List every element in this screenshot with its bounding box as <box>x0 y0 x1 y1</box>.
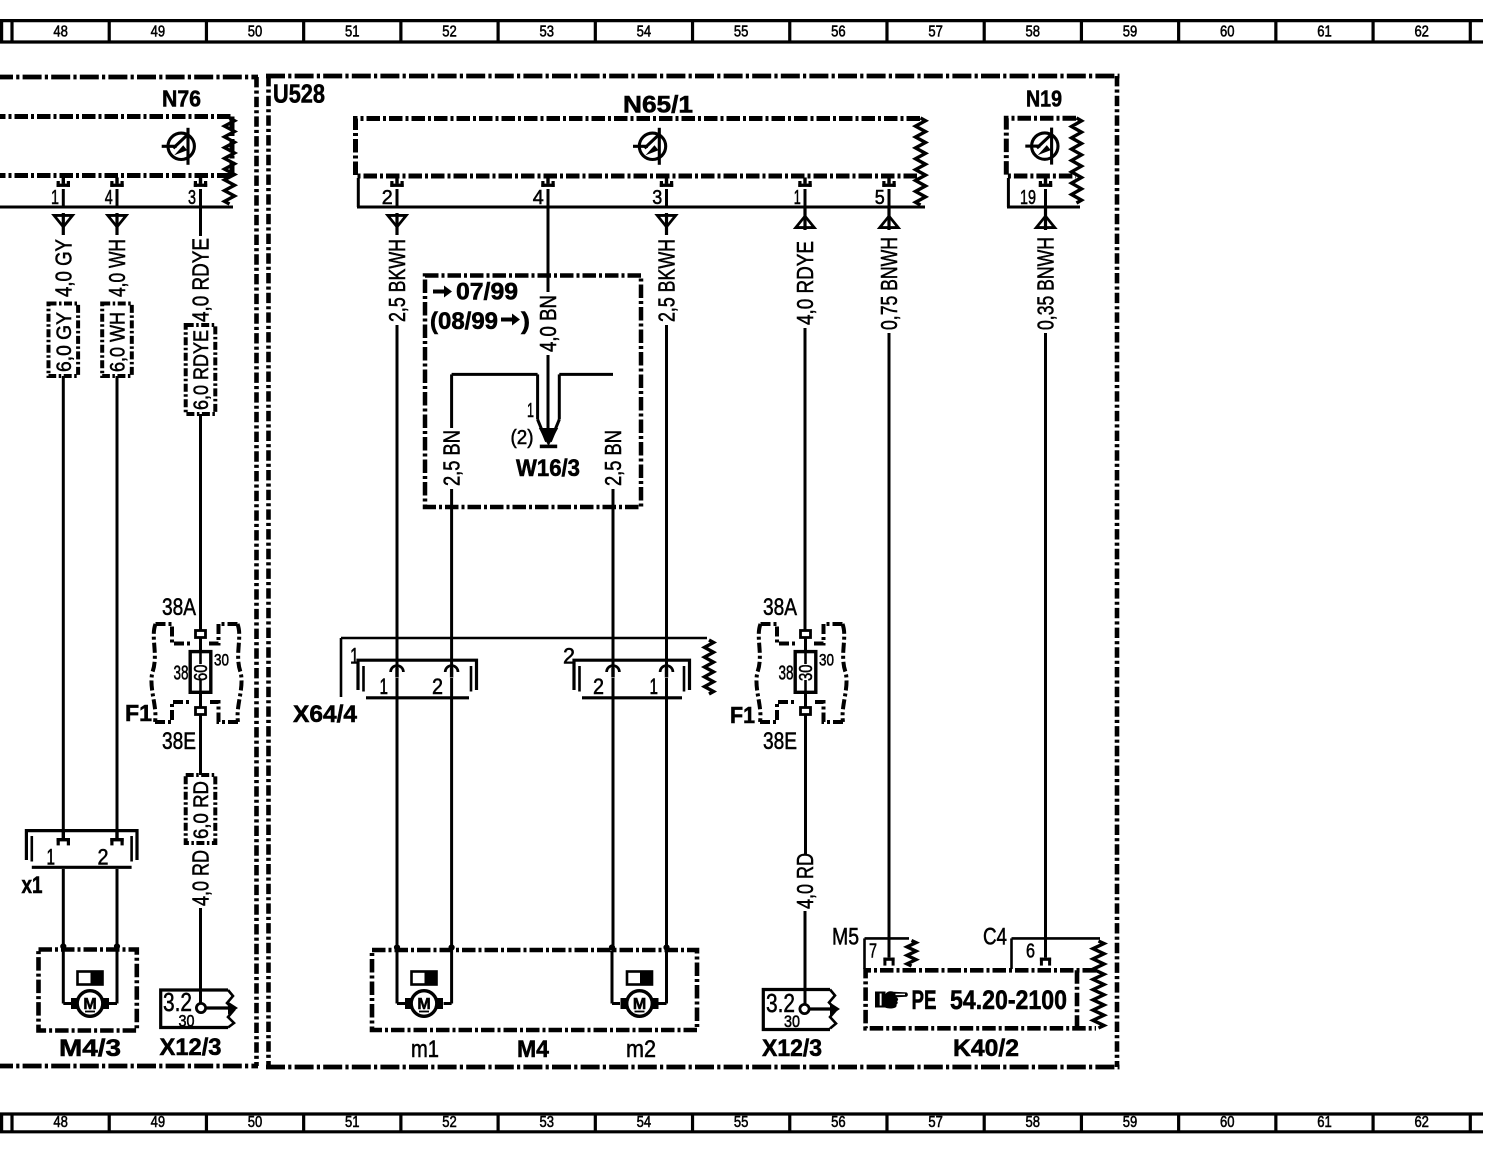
svg-text:4: 4 <box>533 186 544 209</box>
svg-text:0,35 BNWH: 0,35 BNWH <box>1033 237 1059 330</box>
validity arrow 07/99 <box>433 286 452 298</box>
m1 regulator icon <box>412 972 437 985</box>
fuse/relay box K40/2 <box>866 970 1096 1028</box>
wire WH down to x1 <box>116 376 119 831</box>
svg-text:49: 49 <box>151 1114 166 1131</box>
X12/3 socket circle and arrow <box>196 1003 205 1012</box>
terminal block X12/3 right <box>763 990 836 1030</box>
wire spec box 6,0 RDYE <box>186 325 216 414</box>
junction dot <box>114 943 120 949</box>
svg-text:62: 62 <box>1414 1114 1429 1131</box>
svg-text:2: 2 <box>593 674 604 699</box>
W16/3 branch wiring <box>452 373 538 376</box>
wires x1 to M4/3 <box>62 869 65 951</box>
svg-text:38E: 38E <box>763 728 797 755</box>
svg-text:2,5 BKWH: 2,5 BKWH <box>654 239 680 322</box>
junction dot <box>60 943 66 949</box>
grid ruler line <box>0 19 1483 22</box>
svg-text:2: 2 <box>382 186 393 209</box>
branch wires to connectors <box>450 489 453 668</box>
svg-text:38A: 38A <box>162 594 196 621</box>
N76 pin 4 <box>110 178 123 187</box>
svg-text:1: 1 <box>794 186 801 209</box>
frame: U528 subsystem border <box>266 74 1120 79</box>
svg-text:60: 60 <box>1220 1114 1235 1131</box>
wire GY down to x1 <box>62 376 65 831</box>
svg-text:m1: m1 <box>411 1036 439 1063</box>
svg-text:58: 58 <box>1026 1114 1041 1131</box>
svg-text:X12/3: X12/3 <box>160 1034 222 1061</box>
wire RDYE down to fuse F1 <box>199 414 202 631</box>
box W16/3 (ground splice) <box>425 276 641 508</box>
arrow up pin1 <box>793 208 817 230</box>
K40/2 entry pin (C4-6) <box>1040 958 1051 966</box>
svg-text:48: 48 <box>53 24 68 41</box>
svg-text:W16/3: W16/3 <box>516 455 580 482</box>
svg-text:2,5 BKWH: 2,5 BKWH <box>384 239 410 322</box>
terminal block X12/3 left <box>161 990 234 1028</box>
wire N65/1 pin2 <box>396 189 399 207</box>
motor m1 <box>405 991 443 1017</box>
svg-text:30: 30 <box>784 1012 800 1031</box>
svg-text:38E: 38E <box>162 728 196 755</box>
connector X64/4 coupler 2 box <box>574 660 690 698</box>
svg-text:1: 1 <box>650 674 659 699</box>
svg-text:51: 51 <box>345 1114 360 1131</box>
svg-text:M: M <box>417 996 430 1013</box>
svg-text:6: 6 <box>1026 940 1035 963</box>
svg-text:38A: 38A <box>763 594 797 621</box>
fuse F1 (30A) right <box>756 624 846 722</box>
zigzag end of X64/4 bracket <box>705 640 714 694</box>
svg-text:4,0 RD: 4,0 RD <box>792 853 818 909</box>
junction dot m2-2 <box>609 944 615 950</box>
semiconductor symbol in N19 <box>1025 128 1058 165</box>
wire N76 pin1 to bus <box>62 189 65 207</box>
wire spec box 6,0 GY <box>49 304 79 377</box>
svg-text:2: 2 <box>432 674 443 699</box>
svg-text:): ) <box>521 308 530 335</box>
svg-text:4: 4 <box>105 186 113 209</box>
svg-text:58: 58 <box>1026 24 1041 41</box>
svg-text:38: 38 <box>779 663 794 685</box>
junction dot m1-2 <box>449 944 455 950</box>
zigzag C4/K40-2 torn edge <box>1093 941 1104 1028</box>
svg-text:30: 30 <box>796 665 816 682</box>
svg-text:M: M <box>83 996 96 1013</box>
svg-text:4,0 RD: 4,0 RD <box>188 850 214 906</box>
wire N19 pin19 <box>1044 189 1047 207</box>
svg-text:54.20-2100: 54.20-2100 <box>950 985 1067 1015</box>
svg-text:X12/3: X12/3 <box>762 1035 822 1062</box>
svg-text:0,75 BNWH: 0,75 BNWH <box>876 237 902 330</box>
svg-text:N65/1: N65/1 <box>623 92 693 119</box>
svg-text:2: 2 <box>98 845 109 870</box>
svg-text:K40/2: K40/2 <box>953 1035 1019 1062</box>
arrow down pin2 <box>385 213 409 235</box>
svg-text:x1: x1 <box>22 872 43 899</box>
svg-text:07/99: 07/99 <box>456 279 518 306</box>
frame: left component area border <box>0 75 258 80</box>
N76 connector bus line <box>0 206 233 209</box>
wire spec box 6,0 WH <box>102 304 132 377</box>
control unit N76 box <box>0 117 232 176</box>
svg-text:PE: PE <box>912 985 937 1015</box>
svg-text:30: 30 <box>214 651 229 670</box>
M4/3 regulator icon <box>78 972 103 985</box>
svg-text:60: 60 <box>191 665 211 682</box>
junction dot m1-1 <box>394 944 400 950</box>
wire N65/1 pin4 (BN) <box>547 189 550 292</box>
svg-text:53: 53 <box>539 1114 554 1131</box>
svg-text:N19: N19 <box>1026 86 1062 112</box>
M4/3 motor symbol <box>71 991 109 1017</box>
svg-text:50: 50 <box>248 1114 263 1131</box>
svg-text:M4/3: M4/3 <box>59 1035 121 1062</box>
svg-text:52: 52 <box>442 1114 457 1131</box>
svg-text:5: 5 <box>875 186 885 209</box>
svg-text:59: 59 <box>1123 1114 1138 1131</box>
svg-text:48: 48 <box>53 1114 68 1131</box>
svg-text:X64/4: X64/4 <box>293 701 358 728</box>
x1 pin 1 <box>57 831 70 845</box>
connector X64/4 bracket <box>341 637 707 640</box>
svg-text:30: 30 <box>179 1012 195 1031</box>
svg-text:6,0 RD: 6,0 RD <box>190 781 213 839</box>
N65/1 connector bus <box>357 178 360 207</box>
svg-text:7: 7 <box>869 940 877 963</box>
N65/1 pin 1 <box>798 178 811 187</box>
svg-text:49: 49 <box>151 24 166 41</box>
connector x1 <box>26 831 137 868</box>
torn-edge zigzag N76 <box>225 118 235 204</box>
zigzag M5 bracket <box>907 941 916 967</box>
svg-text:60: 60 <box>1220 24 1235 41</box>
svg-text:54: 54 <box>637 24 652 41</box>
svg-text:55: 55 <box>734 1114 749 1131</box>
svg-text:55: 55 <box>734 24 749 41</box>
socket pin 1 <box>660 666 673 678</box>
N65/1 pin 5 <box>882 178 895 187</box>
svg-text:1: 1 <box>51 186 59 209</box>
svg-text:30: 30 <box>819 651 834 670</box>
svg-text:1: 1 <box>380 674 389 699</box>
semiconductor symbol in N65/1 <box>633 128 666 165</box>
N65/1 pin 3 <box>660 178 673 187</box>
pointing hand icon <box>875 991 908 1008</box>
wire N76 pin3 down <box>199 189 202 236</box>
svg-text:56: 56 <box>831 24 846 41</box>
direction arrow down pin1 <box>51 213 75 235</box>
arrow down pin3 <box>654 213 678 235</box>
control unit N65/1 box <box>356 119 921 177</box>
svg-text:C4: C4 <box>983 924 1007 951</box>
arrow up pin5 <box>877 208 901 230</box>
N76 pin 1 <box>57 178 70 187</box>
svg-text:6,0 RDYE: 6,0 RDYE <box>190 330 213 410</box>
connector X64/4 coupler 1 box <box>358 660 477 698</box>
svg-text:59: 59 <box>1123 24 1138 41</box>
svg-text:4,0 RDYE: 4,0 RDYE <box>188 238 214 322</box>
svg-text:38: 38 <box>174 663 189 685</box>
x1 pin 2 <box>110 831 123 845</box>
svg-text:61: 61 <box>1317 1114 1332 1131</box>
blower M4 box <box>372 950 697 1030</box>
svg-text:M: M <box>633 996 646 1013</box>
svg-text:1: 1 <box>47 845 56 870</box>
wires inside M4 <box>396 951 399 1004</box>
svg-text:3: 3 <box>188 186 196 209</box>
socket pin 2 <box>445 666 458 678</box>
wire below F1 <box>199 715 202 776</box>
torn-edge zigzag N65/1 <box>916 118 926 205</box>
svg-text:51: 51 <box>345 24 360 41</box>
N19 pin 19 <box>1039 178 1052 187</box>
N76 pin 3 <box>194 178 207 187</box>
ground point arrow W16/3 <box>539 428 558 446</box>
svg-text:62: 62 <box>1414 24 1429 41</box>
wire N65/1 pin1 (RDYE) <box>804 189 807 207</box>
svg-text:(2): (2) <box>511 426 534 449</box>
svg-text:M4: M4 <box>517 1036 550 1063</box>
svg-text:61: 61 <box>1317 24 1332 41</box>
svg-text:U528: U528 <box>273 79 325 109</box>
svg-text:57: 57 <box>928 24 943 41</box>
motor m2 <box>621 991 659 1017</box>
wires inside M4/3 <box>62 951 65 1004</box>
svg-text:6,0 WH: 6,0 WH <box>107 312 130 372</box>
arrow up pin19 <box>1033 208 1057 230</box>
svg-text:53: 53 <box>539 24 554 41</box>
fuse F1 (60A) left <box>151 624 241 722</box>
N65/1 pin 2 <box>390 178 403 187</box>
svg-text:4,0 WH: 4,0 WH <box>104 239 130 297</box>
svg-text:3: 3 <box>652 186 662 209</box>
grid ruler line <box>0 1112 1483 1115</box>
control unit N19 box <box>1006 118 1076 176</box>
wire N76 pin4 to bus <box>116 189 119 207</box>
svg-text:19: 19 <box>1020 186 1036 209</box>
N65/1 pin 4 <box>541 178 554 187</box>
wire RD to X12/3 <box>199 908 202 1004</box>
svg-text:F1: F1 <box>730 702 755 728</box>
svg-text:52: 52 <box>442 24 457 41</box>
junction dot m2-1 <box>663 944 669 950</box>
svg-text:6,0 GY: 6,0 GY <box>53 312 76 372</box>
svg-text:54: 54 <box>637 1114 652 1131</box>
svg-text:57: 57 <box>928 1114 943 1131</box>
svg-text:50: 50 <box>248 24 263 41</box>
svg-text:F1: F1 <box>125 700 152 726</box>
svg-text:1: 1 <box>527 399 534 422</box>
blower motor M4/3 box <box>39 950 137 1031</box>
torn-edge zigzag N19 <box>1072 118 1082 203</box>
svg-text:4,0 GY: 4,0 GY <box>50 239 76 297</box>
direction arrow down pin4 <box>105 213 129 235</box>
svg-text:4,0 BN: 4,0 BN <box>535 295 561 352</box>
socket pin 2 <box>607 666 620 678</box>
svg-text:M5: M5 <box>832 924 859 951</box>
svg-text:N76: N76 <box>162 86 201 112</box>
svg-text:56: 56 <box>831 1114 846 1131</box>
svg-text:2,5 BN: 2,5 BN <box>600 430 626 486</box>
svg-text:4,0 RDYE: 4,0 RDYE <box>792 241 818 325</box>
svg-text:m2: m2 <box>626 1036 656 1063</box>
m2 regulator icon <box>627 972 652 985</box>
svg-text:(08/99: (08/99 <box>430 308 498 335</box>
semiconductor symbol in N76 <box>162 128 195 165</box>
wire N65/1 pin5 (BNWH) <box>888 189 891 207</box>
wire spec box 6,0 RD <box>186 775 216 843</box>
svg-text:2,5 BN: 2,5 BN <box>439 430 465 486</box>
wire below right F1 <box>804 715 807 856</box>
socket pin 1 <box>391 666 404 678</box>
K40/2 entry pin (M5-7) <box>883 958 894 966</box>
N19 connector bus <box>1007 178 1010 207</box>
wire N65/1 pin3 <box>665 189 668 207</box>
